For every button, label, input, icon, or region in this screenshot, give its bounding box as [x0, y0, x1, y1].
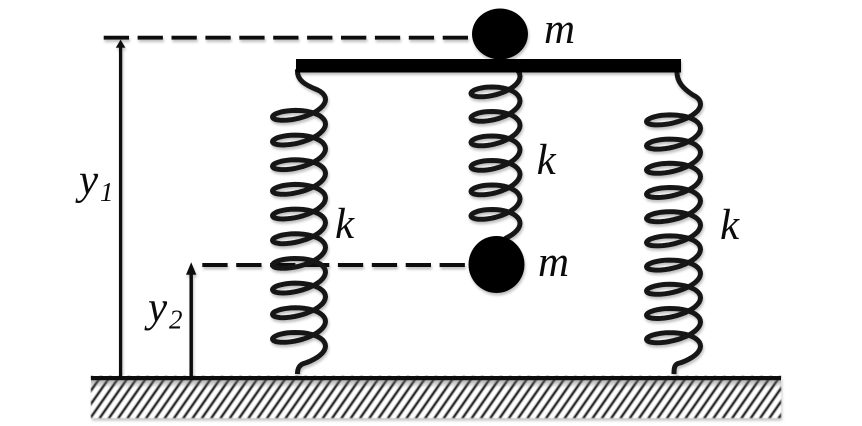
svg-text:k: k [335, 201, 355, 248]
svg-text:k: k [537, 137, 557, 184]
svg-text:1: 1 [100, 177, 114, 207]
svg-text:k: k [720, 202, 740, 249]
svg-text:m: m [538, 239, 569, 286]
svg-text:y: y [144, 284, 168, 331]
svg-text:y: y [75, 157, 99, 204]
svg-text:2: 2 [169, 305, 183, 335]
svg-text:m: m [544, 6, 575, 53]
